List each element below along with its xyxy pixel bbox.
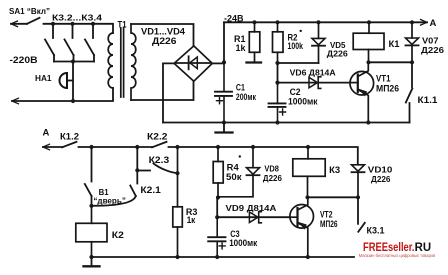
contact K3.3: [65, 24, 74, 62]
node R3 bottom: [175, 255, 179, 259]
node rail VT1 emitter: [366, 120, 370, 124]
diode VD5: [312, 22, 325, 63]
node bridge DC minus: [222, 60, 226, 64]
svg-text:К2.1: К2.1: [140, 185, 161, 195]
contact K3.2: [45, 24, 54, 62]
svg-text:Д226: Д226: [152, 36, 177, 46]
node R2 top: [275, 20, 279, 24]
wire R2 node to VD5 bottom: [278, 62, 319, 64]
node K3.3 top: [70, 22, 74, 26]
svg-text:А: А: [43, 127, 50, 138]
contact K2.3 branch: [137, 164, 177, 174]
zener VD9: [249, 212, 261, 223]
svg-text:Д226: Д226: [327, 49, 348, 59]
node VD7 top: [410, 20, 414, 24]
node VT2 collector: [305, 195, 309, 199]
node rail C1: [222, 120, 226, 124]
node rail C2: [275, 120, 279, 124]
svg-text:К1.1: К1.1: [418, 95, 439, 106]
node VT2 emitter bottom: [306, 255, 310, 259]
wire secondary bottom to bridge: [131, 81, 194, 100]
svg-text:VD10: VD10: [368, 164, 393, 174]
label R4 asterisk: [239, 155, 241, 157]
svg-text:К3: К3: [329, 165, 340, 175]
transformer T1 secondary winding: [131, 24, 136, 100]
wire top bus to transformer: [44, 24, 114, 33]
node VD8 top: [251, 145, 255, 149]
wire collector node to VD10/K3.1: [308, 196, 359, 198]
svg-text:1к: 1к: [187, 215, 196, 225]
svg-text:К3.1: К3.1: [367, 225, 385, 235]
relay K1 coil: [353, 22, 384, 62]
resistor R3: [173, 147, 183, 257]
svg-text:-24В: -24В: [224, 13, 244, 23]
svg-text:100k: 100k: [288, 41, 304, 51]
node VT1 collector: [366, 60, 370, 64]
transistor VT1: [350, 62, 374, 122]
wire -24V bus with arrow to A: [224, 20, 427, 26]
svg-text:VD9 Д814А: VD9 Д814А: [226, 203, 277, 213]
wire collector node to VD7/K1.1: [369, 61, 413, 63]
contact K3.1: [358, 197, 365, 232]
svg-text:Д226: Д226: [263, 173, 282, 183]
svg-text:К2.2: К2.2: [147, 132, 168, 142]
svg-text:МП26: МП26: [376, 84, 399, 95]
svg-text:1000мк: 1000мк: [288, 97, 318, 107]
wire down to HA1 node: [72, 62, 74, 102]
transformer T1 primary winding: [108, 33, 113, 88]
svg-text:“дверь”: “дверь”: [93, 196, 126, 205]
svg-text:К1: К1: [389, 39, 400, 49]
capacitor C2: [269, 83, 286, 123]
transistor VT2: [290, 197, 314, 257]
ground row1 rail: [216, 123, 233, 133]
svg-text:К2: К2: [112, 230, 124, 240]
svg-text:НА1: НА1: [35, 73, 52, 83]
wire -220V top bus left segment with arrow: [11, 21, 27, 27]
wire riser up to -24V bus: [223, 22, 225, 62]
node K2 coil top: [89, 204, 93, 208]
node R4 top: [216, 145, 220, 149]
switch B1: [85, 147, 92, 206]
svg-text:К1.2: К1.2: [60, 132, 79, 142]
zener VD6: [309, 77, 321, 89]
label R2 asterisk: [300, 30, 302, 32]
switch SA1 blade: [27, 18, 40, 24]
wire -220V bottom bus with arrow: [12, 88, 113, 104]
node C3 bottom: [215, 255, 219, 259]
node VD5 top: [316, 20, 320, 24]
logo FREEseller.RU: [363, 240, 431, 254]
diode bridge VD1...VD4: [174, 46, 212, 81]
diode VD10: [352, 165, 365, 198]
svg-text:VT1: VT1: [376, 74, 391, 84]
wire VD6 line to VT1 base: [278, 82, 351, 84]
node K3.2 top: [51, 22, 55, 26]
svg-text:VD8: VD8: [264, 163, 279, 173]
buzzer HA1: [60, 73, 73, 88]
svg-text:Т1: Т1: [118, 19, 127, 29]
svg-text:200мк: 200мк: [236, 92, 256, 102]
wire secondary top to bridge: [131, 24, 194, 46]
node VD10 bottom: [356, 195, 360, 199]
svg-text:SA1 “Вкл”: SA1 “Вкл”: [9, 6, 50, 16]
diode VD8: [218, 147, 260, 197]
contact K1.1: [406, 62, 413, 122]
svg-text:Д226: Д226: [421, 45, 444, 55]
svg-text:R4: R4: [227, 162, 239, 172]
transformer T1 core: [121, 28, 124, 97]
node R3 top: [175, 145, 179, 149]
node VD9/C3: [215, 215, 219, 219]
contact K3.4: [85, 24, 94, 62]
node K2.1/K2.3 top: [135, 145, 139, 149]
wire row2 bottom bus: [92, 256, 355, 258]
node K1 top: [367, 20, 371, 24]
svg-text:А: А: [430, 18, 437, 29]
ground under K2: [84, 257, 100, 266]
wire bridge left corner to ground rail: [163, 63, 174, 122]
svg-text:50к: 50к: [226, 172, 242, 182]
wire bus K1.2 to K2.2: [79, 146, 153, 148]
relay K2 coil: [76, 206, 107, 257]
node K3.4 top: [91, 22, 95, 26]
svg-text:С1: С1: [236, 82, 245, 92]
svg-text:-220В: -220В: [10, 55, 38, 66]
svg-text:МП26: МП26: [320, 219, 338, 229]
svg-text:1000мк: 1000мк: [229, 238, 257, 248]
svg-text:Магазин бесплатных цифровых то: Магазин бесплатных цифровых товаров: [359, 253, 436, 258]
ground under R1: [247, 61, 262, 63]
node VD7 bottom: [410, 60, 414, 64]
node contacts bottom: [71, 59, 75, 63]
wire node down to VD9 line: [216, 198, 218, 218]
node K3 top: [306, 145, 310, 149]
contact K2.1 with curve to K2 node: [92, 147, 138, 206]
svg-text:С2: С2: [290, 87, 301, 97]
node B1 top: [89, 145, 93, 149]
wire ground rail row1: [163, 122, 410, 124]
resistor R1: [249, 22, 259, 61]
svg-text:1k: 1k: [236, 43, 247, 53]
wire bus K2.2 to VD10 corner: [169, 147, 358, 165]
svg-text:Д226: Д226: [371, 174, 391, 184]
node R4/VD8 bottom: [216, 195, 220, 199]
node VD6 tap: [275, 81, 279, 85]
svg-text:V07: V07: [422, 35, 439, 45]
wire R2 node down to VD6 tap: [277, 63, 279, 83]
node R1 top: [252, 20, 256, 24]
contact K2.2 blade: [152, 142, 167, 148]
node K2.3 tee: [135, 168, 139, 172]
capacitor C3: [208, 217, 225, 257]
capacitor C1: [215, 62, 232, 122]
node K2 bottom: [89, 255, 93, 259]
node K2.3 to R3: [175, 171, 179, 175]
svg-text:К2.3: К2.3: [149, 155, 170, 165]
wire VD9 line to VT2 base: [217, 216, 290, 218]
svg-text:К3.2...К3.4: К3.2...К3.4: [52, 14, 103, 23]
relay K3 coil: [293, 147, 325, 197]
node bottom bus HA1: [71, 99, 75, 103]
svg-text:VD6 Д814А: VD6 Д814А: [290, 68, 336, 78]
wire contacts bottom bus: [54, 61, 94, 63]
wire row2 bus with arrow A: [43, 144, 62, 150]
node R2 bottom: [275, 61, 279, 65]
contact K1.2 blade: [62, 142, 77, 148]
wire bridge right corner to -24V riser: [212, 62, 224, 64]
resistor R2: [273, 22, 284, 63]
resistor R4: [213, 147, 223, 198]
diode VD7: [406, 22, 419, 62]
